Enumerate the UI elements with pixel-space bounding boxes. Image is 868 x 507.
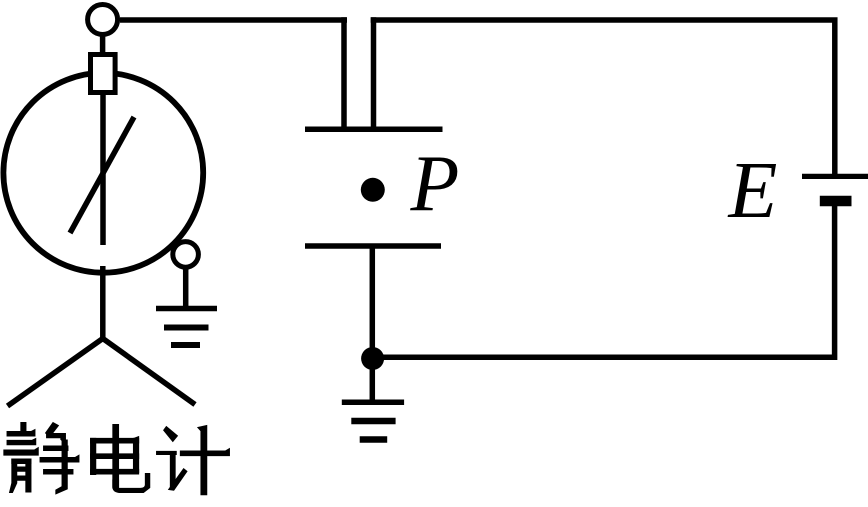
ground A line 3 — [171, 342, 200, 348]
support rod — [100, 266, 106, 339]
ground A line 2 — [164, 325, 209, 331]
char ji: ten H — [180, 449, 229, 456]
char jing: qing H3 — [4, 448, 39, 456]
char jing: qing H2 — [7, 439, 36, 445]
terminal ring — [88, 5, 118, 35]
char ji: speech up hook — [169, 469, 187, 491]
char jing: zheng horiz hook — [47, 434, 66, 444]
char ji: speech H — [157, 451, 177, 454]
char jing: zheng vertical hook — [56, 440, 68, 494]
ground B line 2 — [351, 418, 395, 425]
char dian: box mid H — [91, 454, 139, 459]
char jing: moon right vertical — [26, 459, 31, 492]
char jing: moon inner bar 1 — [16, 467, 27, 471]
char dian: bottom hook — [113, 474, 150, 493]
char jing: zheng top slash — [46, 423, 59, 437]
right leg — [103, 339, 195, 405]
junction dot — [361, 347, 384, 370]
ground terminal ring — [173, 242, 199, 268]
capacitor top plate — [305, 127, 443, 133]
char jing: qing H1 — [7, 430, 35, 437]
capacitor right stem — [371, 17, 377, 129]
char jing: moon inner bar 2 — [16, 476, 27, 480]
char jing: zheng yo bottom H — [44, 470, 74, 475]
char ji: ten vertical — [198, 425, 207, 494]
char dian: box bottom H — [91, 469, 139, 474]
label 静电计 — [4, 423, 230, 495]
capacitor bottom stem — [370, 246, 376, 358]
capacitor left stem — [341, 17, 347, 129]
char jing: qing top tick — [21, 423, 26, 433]
svg-text:E: E — [728, 147, 778, 235]
wire capacitor to battery top — [371, 20, 835, 176]
electrometer body circle — [3, 73, 203, 273]
left leg — [8, 339, 103, 407]
char dian: center vertical — [113, 425, 119, 489]
point P dot — [361, 178, 385, 202]
terminal link wire — [100, 34, 106, 54]
char ji: speech dot — [164, 427, 178, 442]
electrometer rod — [100, 92, 106, 245]
wire electrometer to capacitor top — [120, 17, 347, 23]
ground B line 3 — [360, 436, 388, 443]
char dian: box right vertical — [133, 438, 138, 472]
capacitor bottom plate — [305, 243, 441, 249]
char jing: zheng long H — [40, 455, 79, 462]
electrometer needle — [70, 117, 134, 233]
char jing: moon left vertical — [10, 459, 17, 493]
battery long plate — [802, 174, 868, 179]
wire ring to ground — [183, 266, 189, 308]
ground B line 1 — [342, 400, 404, 406]
char jing: moon top bar — [12, 459, 31, 464]
electrometer cap rectangle — [91, 55, 116, 93]
char dian: box left vertical — [91, 438, 96, 474]
ground A line 1 — [156, 306, 217, 312]
char ji: speech vertical — [170, 455, 175, 488]
char dian: box top H — [91, 437, 139, 444]
stem junction to ground B — [370, 358, 376, 402]
char jing: zheng yo top H — [44, 446, 69, 451]
svg-text:P: P — [410, 140, 460, 228]
battery short plate — [820, 196, 852, 207]
bottom wire to battery — [372, 204, 835, 357]
